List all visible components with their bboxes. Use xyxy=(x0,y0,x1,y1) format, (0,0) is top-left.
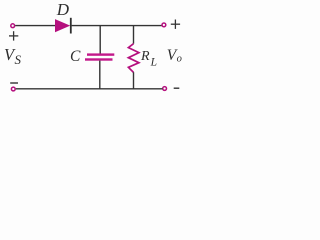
resistor RL zigzag xyxy=(128,44,139,73)
minus sign right xyxy=(174,87,180,89)
capacitor C bottom plate xyxy=(85,58,113,60)
capacitor C top plate xyxy=(87,53,114,55)
capacitor bottom lead xyxy=(99,61,101,89)
wire bottom xyxy=(16,88,163,90)
plus sign right xyxy=(171,20,180,29)
terminal bottom-right xyxy=(163,87,167,91)
svg-text:D: D xyxy=(56,0,70,19)
svg-text:o: o xyxy=(177,53,182,64)
terminal top-left xyxy=(11,24,15,28)
diode cathode bar xyxy=(70,18,72,34)
capacitor top lead xyxy=(99,26,101,54)
svg-text:L: L xyxy=(150,56,157,68)
minus sign left xyxy=(10,82,18,84)
resistor bottom lead xyxy=(133,72,135,89)
wire top-left xyxy=(15,25,55,27)
terminal bottom-left xyxy=(11,87,15,91)
resistor top lead xyxy=(133,26,135,44)
terminal top-right xyxy=(162,23,166,27)
svg-text:C: C xyxy=(70,48,81,65)
svg-text:R: R xyxy=(140,49,150,64)
wire top-right xyxy=(72,25,162,27)
plus sign left xyxy=(9,31,18,40)
diode D xyxy=(55,19,70,32)
svg-text:S: S xyxy=(15,52,22,67)
